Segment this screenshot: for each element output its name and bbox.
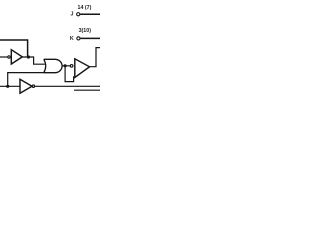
wire U3 output up to right edge (89, 48, 100, 67)
inverter U2 output bubble (32, 85, 34, 87)
wire top rail (0, 40, 28, 57)
wire feedback U-shape (65, 66, 74, 82)
wire K input (80, 37, 100, 39)
svg-text:J: J (71, 12, 74, 18)
node junction dot B (6, 85, 9, 88)
inverter U2 (20, 79, 32, 93)
inverter U1 input bubble (8, 56, 10, 58)
wire J input (80, 13, 100, 15)
wire feedback lower-left (8, 73, 46, 87)
wire bottom rail 1 (35, 85, 100, 87)
buffer U3 input bubble (70, 65, 73, 68)
wire U1 output to gate G1 (22, 57, 45, 64)
node junction dot A (27, 55, 30, 58)
terminal circle J (77, 13, 80, 16)
or-gate G1 (44, 59, 62, 72)
wire bottom rail 2 (74, 89, 100, 91)
svg-text:K: K (70, 36, 74, 42)
inverter U1 (11, 50, 22, 64)
wire input to inverter U2 (0, 85, 20, 87)
buffer U3 (75, 59, 90, 78)
svg-text:14 (7): 14 (7) (78, 5, 92, 11)
svg-text:3(10): 3(10) (79, 28, 92, 34)
wire G1 output (62, 65, 71, 67)
node junction dot C (64, 64, 67, 67)
wire CLK input to inverter U1 (0, 56, 8, 58)
terminal circle K (77, 37, 80, 40)
